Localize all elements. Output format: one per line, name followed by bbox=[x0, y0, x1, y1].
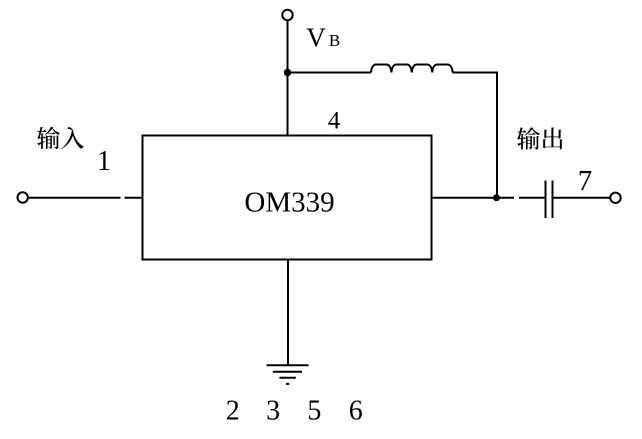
terminal VB top bbox=[282, 10, 292, 20]
svg-text:OM339: OM339 bbox=[244, 187, 334, 219]
junction dot VB bbox=[284, 69, 291, 76]
wire capacitor to output terminal bbox=[554, 197, 611, 199]
svg-text:1: 1 bbox=[97, 146, 111, 177]
ground bar 1 bbox=[267, 364, 309, 366]
svg-text:5: 5 bbox=[307, 396, 321, 427]
wire VB vertical bbox=[287, 21, 289, 136]
label 输入 char 入 bbox=[61, 127, 84, 149]
inductor L1 bbox=[371, 65, 453, 73]
wire input segment a bbox=[29, 197, 121, 199]
wire junction to capacitor segment a bbox=[497, 197, 514, 199]
wire box bottom to ground bbox=[287, 260, 289, 366]
capacitor C plate left bbox=[545, 181, 547, 219]
svg-text:6: 6 bbox=[349, 396, 363, 427]
wire input segment b bbox=[125, 197, 143, 199]
label 输出 char 出 bbox=[542, 127, 562, 149]
wire box right to junction bbox=[432, 197, 498, 199]
svg-text:7: 7 bbox=[578, 165, 593, 197]
ground bar 4 bbox=[286, 383, 289, 385]
capacitor C plate right bbox=[552, 181, 554, 219]
terminal output bbox=[610, 193, 620, 203]
junction dot output bbox=[493, 194, 500, 201]
wire inductor to corner bbox=[453, 73, 497, 198]
ground bar 3 bbox=[279, 377, 295, 379]
label 输出 char 输 bbox=[517, 127, 540, 149]
label 输入 char 输 bbox=[37, 127, 60, 149]
svg-text:3: 3 bbox=[266, 396, 280, 427]
svg-text:2: 2 bbox=[226, 396, 240, 427]
svg-text:V: V bbox=[306, 23, 326, 53]
svg-text:4: 4 bbox=[328, 108, 341, 135]
wire junction to inductor bbox=[288, 72, 372, 74]
terminal input bbox=[18, 192, 28, 202]
ground bar 2 bbox=[273, 371, 302, 373]
svg-text:B: B bbox=[329, 31, 340, 50]
op-amp U1 OM339 box bbox=[143, 136, 432, 260]
wire junction to capacitor segment b bbox=[519, 197, 545, 199]
